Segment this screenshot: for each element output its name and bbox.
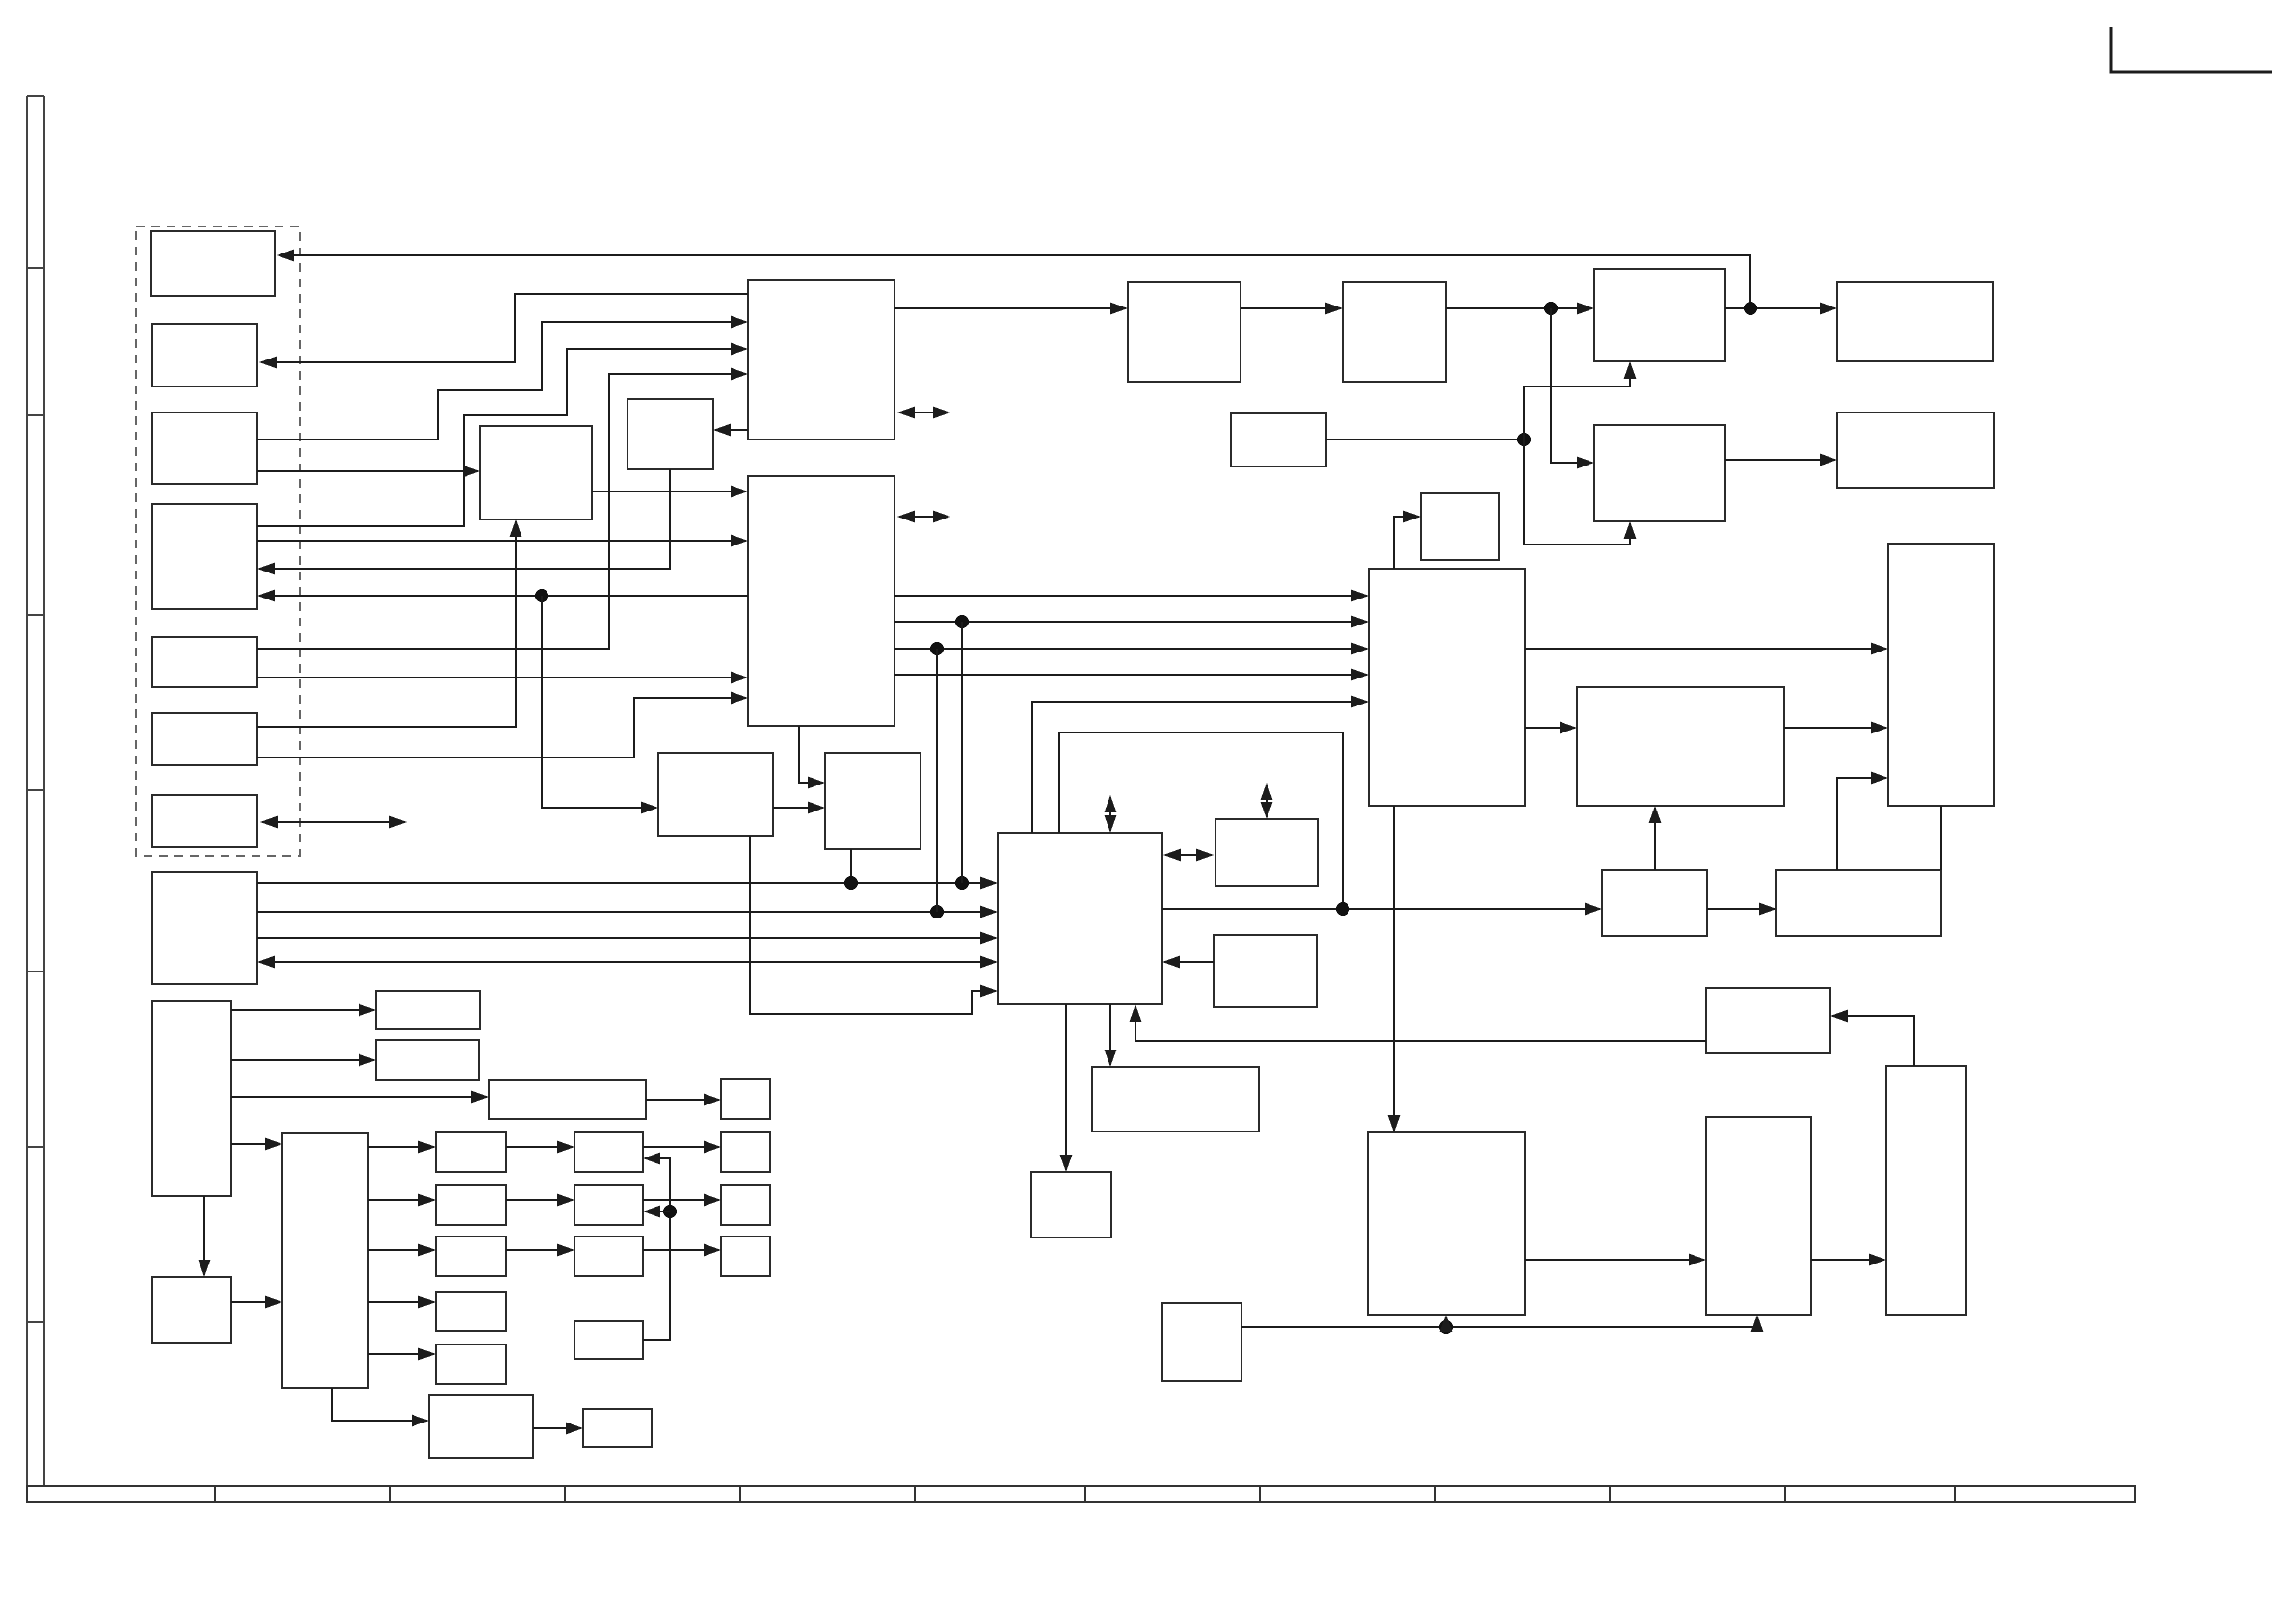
wire w38-b8-line3 [257,932,998,945]
wire w55-Q-to-Z2 [1105,1004,1117,1067]
block bN3 [489,1080,646,1119]
wire w12-D-to-S1 [713,424,748,437]
wire w48-E-to-U [1525,722,1577,734]
block bS2 [1215,819,1318,886]
wire w64-b9-to-b10 [231,1138,282,1151]
wire w45-V-to-W [1707,903,1776,916]
wire w18b-to-H-bottom [1524,361,1637,439]
block bP4 [436,1292,506,1331]
block bW [1776,870,1941,936]
wire w67-b10-to-P5 [368,1348,436,1361]
block bK [1837,412,1994,488]
wire w18c-to-I-bottom [1524,439,1637,545]
wire w79-b12-to-b13 [533,1423,583,1435]
wire w58-AC-to-AB [1811,1254,1886,1266]
wire w8-b4-to-D [257,535,748,547]
block b4 [152,504,257,609]
block bT [1888,544,1994,806]
block bZ1 [1031,1172,1111,1237]
wire w60-b9-to-N1 [231,1004,376,1017]
wire w9-S1-to-b4 [257,469,670,575]
block bR3 [721,1237,770,1276]
block b1 [151,231,275,296]
wire w72-P2-to-Q2 [506,1194,574,1207]
block bJ [1837,282,1993,361]
wire w5-b4-to-A [257,343,748,527]
wire w28-Q-to-E-5 [1032,696,1369,834]
wire w6-b5-to-A [257,368,748,650]
block b6 [152,713,257,765]
block b7 [152,795,257,847]
wire w3-b3-to-A [257,316,748,440]
wire w67-b10-to-P1 [368,1141,436,1154]
wire w16b-branch-to-I [1551,308,1594,469]
wire w10-D-to-b4 [257,589,748,602]
wire w61-b9-to-N2 [231,1054,376,1067]
wire w2-A-to-b2 [259,294,748,369]
block bC [1343,282,1446,382]
bottom scale bar [27,1486,2135,1502]
block bP3 [436,1237,506,1276]
block b12 [429,1395,533,1458]
wire w42-S2-updown [1261,783,1273,819]
block bV [1602,870,1707,936]
wire w43-S3-to-Q [1162,956,1214,969]
wire w80-b6-to-D [257,692,748,758]
wire w41-Q-updown [1105,795,1117,833]
wire w40-Q-S2-bidir [1163,849,1214,862]
wire w39-b8-line4-bidir [257,956,998,969]
block bY [1368,1132,1525,1315]
wire w62-b9-to-N3 [231,1091,489,1104]
wire w4-b3-to-M [257,466,480,478]
block bM [480,426,592,519]
wire w53-AA-to-Q [1130,1004,1707,1041]
wire w36-b8-line2 [257,905,998,918]
wire w24-D-to-E-1 [894,590,1369,602]
wire w77-S5-branch [643,1206,670,1218]
wire w35-drop-645 [961,622,963,883]
wire w67-b10-to-P2 [368,1194,436,1207]
wire w72-P3-to-Q3 [506,1244,574,1257]
wire w19-I-to-K [1725,454,1837,466]
wire w46-V-to-U [1649,806,1662,870]
wire w33-R-drop [850,849,852,883]
block bF [1231,413,1326,466]
wire w78-b10-to-b12 [332,1388,429,1427]
wire w73-Q2-to-R2 [643,1194,721,1207]
wire w30-D-to-R [799,726,825,789]
wire w51-T-to-W-link [1940,806,1942,870]
wire w25-D-to-E-2 [894,615,1369,628]
block b3 [152,412,257,484]
block b11 [152,1277,231,1343]
wire w21-A-bidir-stub [897,407,950,419]
block bS3 [1214,935,1317,1007]
wire w81-b5-to-D [257,672,748,684]
wire w34-b8-line1 [257,876,998,890]
wire w31-O-to-R [773,802,825,814]
wire w76-S5-loop [643,1153,677,1341]
block bQ2 [574,1185,643,1225]
wire w22-D-bidir-stub [897,511,950,523]
wire w59b-branch-to-Y [1440,1315,1453,1332]
block bU [1577,687,1784,806]
block bAB [1886,1066,1966,1315]
wire w7-b6-to-M-bottom [257,519,522,727]
block bP2 [436,1185,506,1225]
wire w14-A-to-B [894,303,1128,315]
block b13 [583,1409,652,1447]
wire w67-b10-to-P4 [368,1296,436,1309]
block bR2 [721,1185,770,1225]
wire w37-drop-673 [936,649,938,912]
wire w44-Q-to-V [1162,902,1602,916]
block bQ1 [574,1132,643,1172]
left margin ruler [27,96,44,1486]
wire w63-N3-to-N4 [646,1094,721,1106]
block b2 [152,324,257,386]
corner registration mark [2111,27,2272,72]
wire w57-Y-to-AC [1525,1254,1706,1266]
wire w56-E-to-Y [1388,806,1401,1132]
wire w65-b9-to-b11 [199,1196,211,1277]
block bH [1594,269,1725,361]
block bI [1594,425,1725,521]
block bQ [998,833,1162,1004]
block b8 [152,872,257,984]
block bQ3 [574,1237,643,1276]
wire w23-b7-bidir [260,816,407,829]
block bN4 [721,1079,770,1119]
wire w73-Q3-to-R3 [643,1244,721,1257]
wire w1-feedback-to-b1 [277,250,1757,316]
wire w13-M-to-D [592,486,748,498]
block b10 [282,1133,368,1388]
wire w52-AB-to-AA [1830,1010,1914,1067]
wire w26-D-to-E-3 [894,642,1369,655]
block bZ2 [1092,1067,1259,1131]
wire w66-b11-to-b10 [231,1296,282,1309]
block bN2 [376,1040,479,1080]
wire w73-Q1-to-R1 [643,1141,721,1154]
block bN1 [376,991,480,1029]
block bS5 [574,1321,643,1359]
wire w17-H-to-J [1725,302,1837,315]
wire w72-P1-to-Q1 [506,1141,574,1154]
wire w50-W-to-T [1837,772,1888,871]
block bE [1369,569,1525,806]
block bZ3 [1162,1303,1241,1381]
wire w29-Q-top-loop [1059,732,1343,909]
block bAA [1706,988,1830,1053]
block bP5 [436,1344,506,1384]
block bR1 [721,1132,770,1172]
wire w20-E-to-G [1394,511,1421,570]
wire w16-C-to-H [1446,302,1594,315]
block bG [1421,493,1499,560]
block bP1 [436,1132,506,1172]
wire w54-Q-to-Z1 [1060,1004,1073,1172]
block bAC [1706,1117,1811,1315]
block bR [825,753,921,849]
wire w47-E-to-T [1525,643,1888,655]
wire w59-Z3-line [1241,1315,1764,1334]
block bA [748,280,894,439]
wire w49-U-to-T [1784,722,1888,734]
wire w67-b10-to-P3 [368,1244,436,1257]
wire w18-F-out [1326,433,1531,446]
block b5 [152,637,257,687]
block bO [658,753,773,836]
wire w32-O-to-Q [750,836,998,1014]
dashed group outline [136,226,300,856]
block b9 [152,1001,231,1196]
block bS1 [627,399,713,469]
block bB [1128,282,1241,382]
wire w11-branch-to-O [542,596,658,814]
wire w15-B-to-C [1241,303,1343,315]
wire w27-D-to-E-4 [894,669,1369,681]
block bD [748,476,894,726]
